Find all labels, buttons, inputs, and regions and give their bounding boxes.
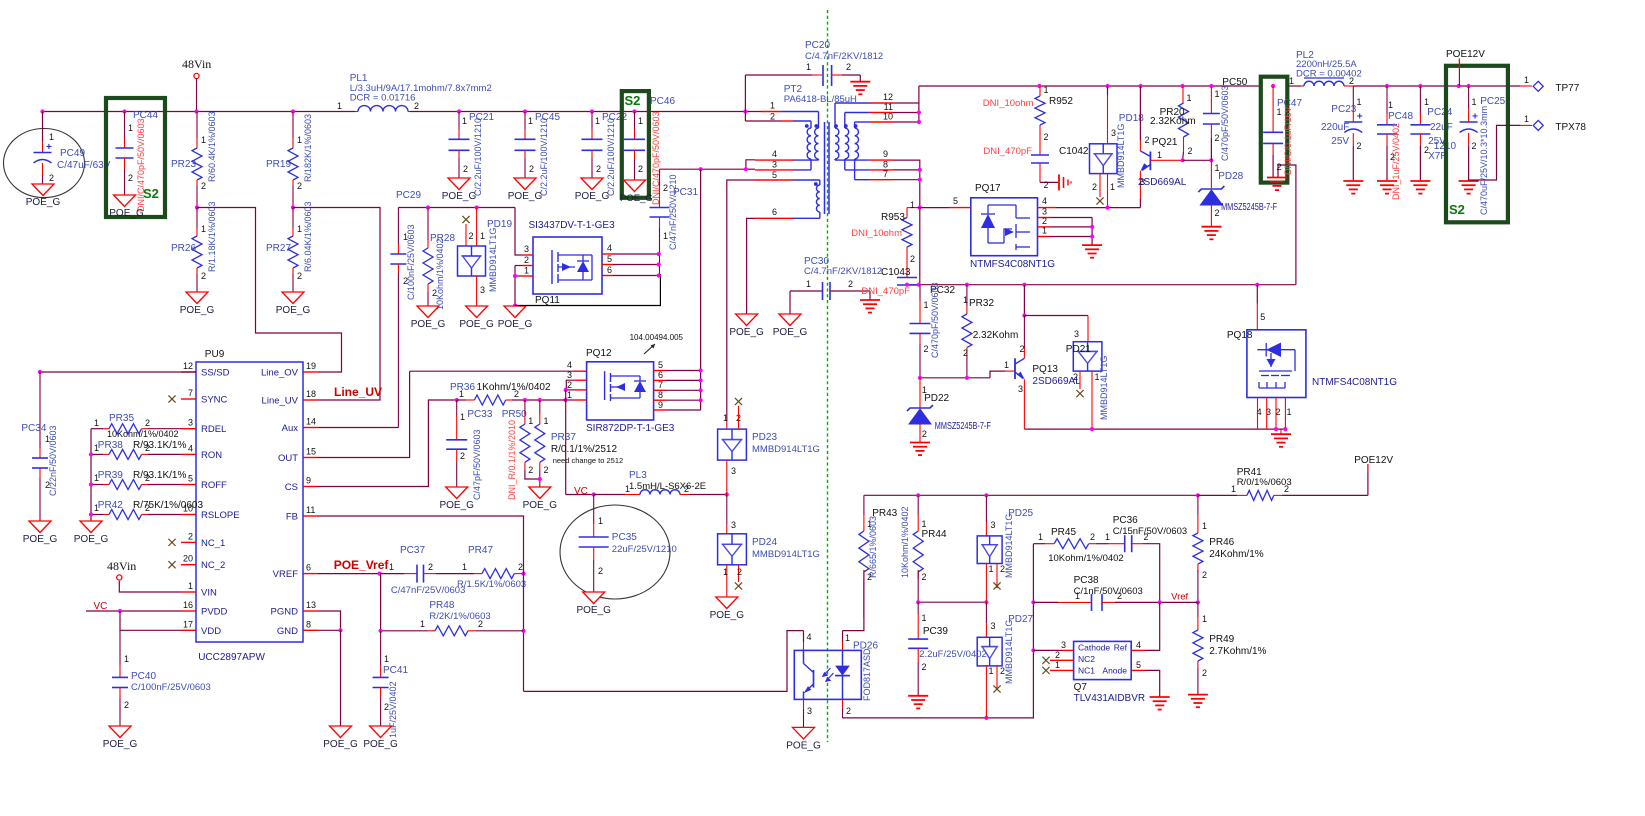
svg-text:6: 6 [658,370,663,380]
svg-text:FOD817ASD: FOD817ASD [862,648,872,701]
capacitor PC25 [1468,86,1470,108]
svg-text:2: 2 [1145,135,1150,145]
pin 4 PQ12 [410,370,574,372]
ground earth PR49 [1188,694,1208,696]
capacitor PC31 [659,169,661,186]
svg-text:3: 3 [567,370,572,380]
svg-text:DNI_10ohm: DNI_10ohm [851,228,902,239]
diode PD24 [726,495,728,525]
ground POE_G PR37 [529,487,551,499]
svg-text:2: 2 [1055,650,1060,660]
svg-text:1: 1 [297,135,302,145]
svg-text:PR19: PR19 [266,159,291,170]
svg-text:NTMFS4C08NT1G: NTMFS4C08NT1G [1312,377,1397,388]
wire PGND GND join [318,611,341,630]
ground POE_G PR27 [282,292,304,304]
pin 1 Q7 NC1 [1050,669,1074,671]
svg-text:5: 5 [772,170,777,180]
capacitor PC29 [397,208,399,245]
no-connect SYNC [168,395,175,402]
wire PC32 PR32 bottom [920,377,990,379]
svg-text:2: 2 [1357,141,1362,151]
svg-text:3: 3 [480,285,485,295]
svg-text:4: 4 [567,360,572,370]
svg-text:PD28: PD28 [1218,171,1243,182]
svg-text:MMBD914LT1G: MMBD914LT1G [752,444,820,455]
wire PT2 pin5 to PD23 [727,180,755,420]
svg-text:2: 2 [432,288,437,298]
svg-text:POE_G: POE_G [498,319,533,330]
svg-text:PR50: PR50 [502,409,527,420]
svg-text:PC46: PC46 [650,96,675,107]
svg-text:2.32Kohm: 2.32Kohm [973,330,1019,341]
pin 3 Q7 cathode [1033,649,1062,651]
svg-text:1: 1 [1055,660,1060,670]
pin 1 PU9 VIN [181,591,196,593]
pin 4 PQ17 [1038,207,1057,209]
svg-text:R/182K/1%/0603: R/182K/1%/0603 [303,114,313,182]
svg-text:2.32Kohm: 2.32Kohm [1150,116,1196,127]
diode PD27 [985,602,987,623]
svg-text:C/470pF/50V/0603: C/470pF/50V/0603 [930,282,940,358]
svg-text:C1042: C1042 [1059,146,1089,157]
capacitor PC46 [634,112,636,130]
svg-text:2: 2 [1092,182,1097,192]
pin 3 PQ11 [515,208,522,256]
wire PQ12 gate bus [700,169,702,410]
svg-text:2.7Kohm/1%: 2.7Kohm/1% [1209,646,1266,657]
mosfet PQ18 NTMFS4C08 [1255,283,1259,287]
svg-text:9: 9 [658,400,663,410]
svg-text:DNI_470pF: DNI_470pF [861,286,910,297]
svg-text:MMBD914LT1G: MMBD914LT1G [1004,514,1014,578]
svg-text:5: 5 [607,254,612,264]
svg-text:DCR = 0.01716: DCR = 0.01716 [350,93,416,104]
svg-text:PC33: PC33 [467,409,492,420]
pin 4 PT2 [755,159,793,161]
svg-text:PC23: PC23 [1331,104,1356,115]
svg-text:5: 5 [188,474,193,484]
svg-text:SS/SD: SS/SD [201,368,230,379]
svg-text:PR42: PR42 [98,500,123,511]
capacitor PC33 [456,400,458,416]
wire feedback bias bus [864,494,1198,496]
svg-text:4: 4 [188,443,193,453]
svg-text:1: 1 [1042,226,1047,236]
svg-text:UCC2897APW: UCC2897APW [198,652,265,663]
pin 3 PT2 [755,169,793,171]
svg-text:1: 1 [94,418,99,428]
svg-text:CS: CS [285,482,298,493]
svg-text:POE_G: POE_G [103,739,138,750]
pin 2 PQ12 [574,389,586,391]
ground POE_G PC41 [370,726,392,738]
ground earth PQ18 [1271,433,1291,435]
ground POE_G PC35 [583,592,605,604]
svg-text:1: 1 [1157,150,1162,160]
resistor PR43 [863,495,865,515]
svg-text:+: + [1472,112,1478,123]
svg-text:MMBD914LT1G: MMBD914LT1G [1116,124,1126,188]
svg-text:1: 1 [1038,532,1043,542]
svg-text:8: 8 [658,390,663,400]
ground POE_G PC44 [114,195,136,207]
svg-text:PC37: PC37 [400,545,425,556]
svg-text:POE_G: POE_G [23,534,58,545]
svg-text:2: 2 [1349,76,1354,86]
diode PD18 [1107,86,1109,95]
svg-text:1: 1 [1202,521,1207,531]
svg-text:13: 13 [306,600,316,610]
svg-text:1: 1 [922,519,927,529]
wire pins 9/8/7 to secondary gnd bus [893,160,920,285]
svg-text:C/47pF/50V/0603: C/47pF/50V/0603 [472,429,482,500]
svg-text:2: 2 [297,181,302,191]
svg-text:POE_G: POE_G [276,305,311,316]
svg-text:1: 1 [1187,93,1192,103]
svg-text:POE_G: POE_G [710,610,745,621]
svg-text:PQ21: PQ21 [1152,137,1178,148]
svg-text:1: 1 [128,123,133,133]
wire secondary fb bottom bus [843,544,1034,718]
pin 2 PT2 [744,112,746,122]
svg-text:10Kohm/1%/0402: 10Kohm/1%/0402 [435,238,445,310]
svg-text:Line_UV: Line_UV [262,396,299,407]
svg-text:R/1.18K/1%/0603: R/1.18K/1%/0603 [207,201,217,272]
wire Line_OV sense [197,208,342,373]
svg-text:MMBD914LT1G: MMBD914LT1G [488,228,498,292]
svg-text:8: 8 [883,160,888,170]
resistor PR23 [196,112,198,139]
svg-text:2: 2 [1042,216,1047,226]
pin 3 PQ17 [1038,217,1051,219]
svg-text:C/100nF/25V/0603: C/100nF/25V/0603 [406,224,416,300]
svg-text:DNI/C/470pF/50V/0603: DNI/C/470pF/50V/0603 [136,118,146,212]
svg-text:7: 7 [188,388,193,398]
resistor PR27 [291,205,295,209]
svg-text:2: 2 [1000,666,1005,676]
svg-text:MMSZ5245B-7-F: MMSZ5245B-7-F [1221,202,1277,213]
pin 2 PQ11 [522,265,533,267]
svg-text:RDEL: RDEL [201,424,226,435]
pin 15 PU9 OUT [303,457,318,459]
no-connect NC_1 [168,539,175,546]
svg-text:C/470pF/50V/0603: C/470pF/50V/0603 [1220,85,1230,161]
capacitor PC34 [40,371,196,373]
svg-text:1: 1 [1095,372,1100,382]
svg-text:1: 1 [528,416,533,426]
svg-text:PC49: PC49 [60,148,85,159]
ground earth PC48 [1377,180,1397,182]
svg-text:PR27: PR27 [266,243,291,254]
capacitor C1043 [906,257,908,278]
capacitor PC47 [1272,86,1274,132]
capacitor PC37 [404,573,417,575]
svg-text:1: 1 [1215,89,1220,99]
svg-text:PD23: PD23 [752,432,777,443]
ground POE_G PC46 [624,180,646,192]
svg-text:10: 10 [883,112,893,122]
svg-text:NC2: NC2 [1078,654,1095,664]
svg-text:2: 2 [49,173,54,183]
svg-text:12: 12 [183,361,193,371]
svg-text:1: 1 [598,516,603,526]
wire PQ17 source to ground [1091,218,1093,246]
svg-text:DNI/C/0.1uF/16V: DNI/C/0.1uF/16V [1283,106,1293,175]
svg-text:1: 1 [625,484,630,494]
pin 5 PQ17 [918,207,949,209]
wire PQ11 source return black [515,274,660,306]
svg-text:PD22: PD22 [924,393,949,404]
svg-text:2: 2 [414,101,419,111]
capacitor PC20 [744,75,746,112]
pin 6 PQ12 [654,379,666,381]
svg-text:2: 2 [1284,484,1289,494]
svg-text:PD24: PD24 [752,537,777,548]
svg-text:2: 2 [514,389,519,399]
svg-text:Ref: Ref [1114,643,1128,653]
svg-text:PC40: PC40 [131,671,156,682]
pin 6 PT2 [755,217,793,219]
pin 10 PT2 [869,121,893,123]
pin 18 PU9 Line_UV [303,399,318,401]
capacitor PC48 [1386,86,1388,114]
svg-text:NTMFS4C08NT1G: NTMFS4C08NT1G [970,259,1055,270]
svg-text:2: 2 [1000,564,1005,574]
wire PT2 pin6 to ground [747,218,755,314]
svg-text:PR35: PR35 [109,413,134,424]
svg-text:22uF: 22uF [1430,122,1453,133]
pin 14 PU9 Aux [303,427,318,429]
svg-text:1: 1 [922,613,927,623]
svg-text:5: 5 [953,196,958,206]
pin 1 PQ17 [1038,236,1051,238]
svg-text:3: 3 [731,466,736,476]
diode PD23 [726,420,728,429]
svg-text:PR37: PR37 [551,432,576,443]
svg-text:2: 2 [846,62,851,72]
svg-text:RSLOPE: RSLOPE [201,510,240,521]
svg-text:POE_Vref: POE_Vref [334,558,390,572]
svg-text:2: 2 [737,567,742,577]
svg-text:POE_G: POE_G [109,208,144,219]
svg-text:MMSZ5245B-7-F: MMSZ5245B-7-F [935,421,991,432]
svg-text:PC41: PC41 [383,665,408,676]
svg-text:2: 2 [1044,132,1049,142]
svg-text:TP77: TP77 [1555,83,1579,94]
ground POE_G PT2 pin6 [736,314,758,326]
capacitor PC23 [1352,86,1354,108]
svg-text:11: 11 [884,102,893,112]
svg-text:1: 1 [989,564,994,574]
svg-text:1: 1 [989,666,994,676]
svg-text:1uF/25V/0402: 1uF/25V/0402 [388,681,398,738]
svg-text:2: 2 [529,164,534,174]
svg-text:PC24: PC24 [1427,107,1452,118]
svg-text:2: 2 [463,164,468,174]
svg-text:RON: RON [201,450,222,461]
svg-text:2: 2 [770,112,775,122]
pin 4 Q7 Ref [1131,649,1145,651]
ground earth PC23 [1343,180,1363,182]
svg-text:1: 1 [462,116,467,126]
svg-text:18: 18 [306,389,316,399]
diode PD21 [1024,315,1088,317]
svg-text:4: 4 [1042,196,1047,206]
svg-text:7: 7 [883,169,888,179]
ground earth PD22 [910,442,930,444]
capacitor PC49 [40,109,44,113]
svg-text:1: 1 [1004,360,1009,370]
svg-text:1: 1 [462,562,467,572]
svg-text:1: 1 [924,300,929,310]
svg-text:PQ13: PQ13 [1032,364,1058,375]
svg-text:2: 2 [460,451,465,461]
svg-text:POE_G: POE_G [439,500,474,511]
svg-text:NC_1: NC_1 [201,538,225,549]
resistor PR37 [539,400,541,414]
pin 1 PQ12 [574,399,586,401]
svg-text:10Kohm/1%/0402: 10Kohm/1%/0402 [1048,553,1124,564]
svg-text:2: 2 [1277,162,1282,172]
transistor PQ21 2SD669AL [1139,86,1141,140]
svg-text:2: 2 [124,700,129,710]
svg-text:2: 2 [201,181,206,191]
svg-text:R/75K/1%/0603: R/75K/1%/0603 [133,500,203,511]
resistor PR47 [436,573,474,575]
svg-text:3: 3 [1042,207,1047,217]
svg-text:5: 5 [1260,312,1265,322]
svg-text:12: 12 [883,92,893,102]
svg-text:2: 2 [1215,133,1220,143]
svg-text:24Kohm/1%: 24Kohm/1% [1209,549,1264,560]
svg-text:DNI_10ohm: DNI_10ohm [983,98,1034,109]
wire FB net vertical [318,516,524,691]
svg-text:POE_G: POE_G [323,739,358,750]
svg-text:PD21: PD21 [1066,344,1091,355]
svg-text:OUT: OUT [278,453,298,464]
ground POE_G PC21 [448,178,470,190]
optocoupler PD26 FOD817ASD [794,650,861,699]
svg-text:need change to 2512: need change to 2512 [553,456,623,465]
svg-text:VC: VC [574,486,588,497]
ground earth C1042 [1058,174,1060,190]
svg-text:2: 2 [924,344,929,354]
svg-text:1: 1 [567,390,572,400]
pin 5 PQ11 [602,264,613,266]
svg-text:PR47: PR47 [468,545,493,556]
svg-text:2: 2 [1202,668,1207,678]
svg-text:1: 1 [1286,407,1291,417]
pin 4 PQ11 [602,253,613,255]
svg-text:6: 6 [607,265,612,275]
svg-text:8: 8 [306,619,311,629]
svg-text:TLV431AIDBVR: TLV431AIDBVR [1074,693,1146,704]
resistor PR44 [917,495,919,515]
svg-text:PC29: PC29 [396,190,421,201]
svg-text:Cathode: Cathode [1078,643,1110,653]
svg-text:DNI_1uF/25V/0402: DNI_1uF/25V/0402 [1391,123,1401,200]
svg-text:R/93.1K/1%: R/93.1K/1% [133,440,186,451]
svg-text:9: 9 [306,476,311,486]
svg-text:2: 2 [469,231,474,241]
ground POE_G PC22 [581,178,603,190]
wire VC rail [566,494,594,496]
svg-text:C/2.2uF/100V/1210: C/2.2uF/100V/1210 [473,118,483,196]
svg-text:3: 3 [772,160,777,170]
ground POE_G PQ11 [504,306,526,318]
capacitor PC39 [917,602,919,614]
svg-text:2: 2 [848,279,853,289]
svg-text:1: 1 [1231,484,1236,494]
pin 9 PU9 CS [303,486,318,488]
ground earth PC20 [850,81,870,83]
wire secondary rail to top bus [893,86,919,103]
svg-text:R952: R952 [1049,96,1073,107]
wire PR44 PC39 PD25 row [918,601,986,603]
svg-text:1: 1 [480,231,485,241]
svg-text:1: 1 [595,116,600,126]
capacitor PC50 [1210,86,1212,114]
ground POE_G PR26 [186,292,208,304]
resistor PR49 [1196,600,1200,604]
pin 7 PT2 [869,179,893,181]
svg-text:3: 3 [991,621,996,631]
svg-text:1: 1 [201,224,206,234]
svg-text:1: 1 [188,581,193,591]
ground earth PQ17 [1082,244,1102,246]
svg-text:6: 6 [772,207,777,217]
svg-text:POE_G: POE_G [363,739,398,750]
svg-text:C/47uF/63V: C/47uF/63V [57,160,111,171]
svg-text:PU9: PU9 [205,349,225,360]
pin 16 PU9 PVDD [181,610,196,612]
svg-text:2: 2 [128,173,133,183]
resistor R953 [907,207,918,209]
pin 13 PU9 PGND [303,610,318,612]
svg-text:MMBD914LT1G: MMBD914LT1G [1099,356,1109,420]
svg-text:1: 1 [638,116,643,126]
svg-text:1: 1 [770,101,775,111]
svg-text:2: 2 [1202,570,1207,580]
svg-text:VIN: VIN [201,588,217,599]
svg-text:2: 2 [638,164,643,174]
svg-text:PR26: PR26 [171,243,196,254]
svg-text:R/93.1K/1%: R/93.1K/1% [133,470,186,481]
ground POE_G PR28 [417,306,439,318]
ground earth PC47 [1267,177,1287,179]
svg-text:1: 1 [524,266,529,276]
capacitor PC24 [1419,86,1421,114]
pin 9 PT2 [869,159,893,161]
svg-text:1: 1 [845,633,850,643]
capacitor PC35 [560,505,670,599]
svg-text:2: 2 [1073,372,1078,382]
svg-text:2: 2 [867,572,872,582]
svg-text:1: 1 [1524,75,1529,85]
svg-text:1: 1 [389,562,394,572]
svg-text:Aux: Aux [282,423,299,434]
svg-text:16: 16 [183,600,193,610]
svg-text:2: 2 [598,566,603,576]
svg-text:3: 3 [524,244,529,254]
svg-text:PQ17: PQ17 [975,183,1001,194]
svg-text:Anode: Anode [1102,666,1127,676]
svg-text:3: 3 [1061,640,1066,650]
svg-text:2: 2 [145,503,150,513]
svg-text:PR38: PR38 [98,440,123,451]
svg-text:10Kohm/1%/0402: 10Kohm/1%/0402 [107,429,179,439]
